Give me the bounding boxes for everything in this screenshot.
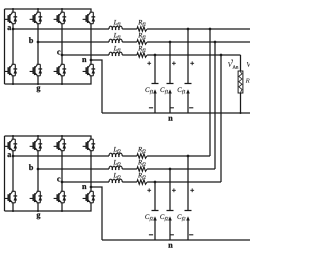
diode Dn2- (anti-parallel): [91, 191, 95, 203]
wire neutral rail n inverter 2: [102, 239, 250, 241]
wire phase b L-R link inverter 1: [122, 41, 137, 43]
label V'B load voltage (cut off): [247, 62, 252, 67]
transistor Sb2+ upper leg b (IGBT): [30, 139, 41, 151]
wire load branch bottom: [240, 93, 242, 113]
transistor Sc2+ upper leg c (IGBT): [54, 139, 65, 151]
wire emitter stub leg 2 inverter 1: [37, 76, 39, 84]
node c inverter 1: [57, 51, 60, 55]
diode Db2- (anti-parallel): [38, 191, 42, 203]
transistor Sn2+ upper leg n (IGBT): [83, 139, 94, 151]
transistor Sc1- lower leg c (IGBT): [54, 64, 65, 76]
wire neutral rail n inverter 1: [102, 112, 250, 114]
wire phase c output inverter 2: [62, 181, 109, 183]
resistor Rf1 phase c: [137, 46, 147, 57]
inductor Lf2 phase a: [109, 147, 122, 157]
wire collector stub leg 3 inverter 1: [61, 9, 63, 12]
resistor Rf2 phase c: [137, 173, 147, 184]
wire emitter stub leg 3 inverter 1: [61, 76, 63, 84]
wire phase c L-R link inverter 1: [122, 54, 137, 56]
diode Dn2+ (anti-parallel): [91, 139, 95, 151]
wire load branch top: [240, 55, 242, 71]
inductor Lf1 phase a: [109, 20, 122, 30]
wire leg n midpoint inverter 1: [90, 24, 92, 65]
wire phase b right run inverter 1: [147, 41, 250, 43]
resistor Rf1 phase b: [137, 33, 147, 44]
wire neutral leg to rail inverter 1: [91, 60, 102, 113]
node b inverter 2: [29, 164, 33, 170]
inductor Lf2 phase c: [109, 173, 122, 183]
node a inverter 2: [7, 153, 11, 157]
transistor Sc1+ upper leg c (IGBT): [54, 12, 65, 24]
transistor Sn1+ upper leg n (IGBT): [83, 12, 94, 24]
diode Da1- (anti-parallel): [13, 64, 17, 76]
wire leg b midpoint inverter 1: [37, 24, 39, 65]
node b inverter 1: [29, 37, 33, 43]
wire collector stub leg 2 inverter 1: [37, 9, 39, 12]
transistor Sa1+ upper leg a (IGBT): [5, 12, 16, 24]
wire phase a right run inverter 2: [147, 155, 210, 157]
wire emitter stub leg 3 inverter 2: [61, 203, 63, 211]
wire DC+ top rail inverter 2: [5, 136, 92, 139]
capacitor Cf1 phase a: [178, 28, 195, 113]
wire phase c right run inverter 1: [147, 54, 240, 56]
node g inverter 2: [37, 213, 41, 219]
diode Dc1+ (anti-parallel): [62, 12, 66, 24]
capacitor Cf2 phase b: [160, 168, 176, 240]
wire phase c output inverter 1: [62, 54, 109, 56]
wire DC- bottom rail inverter 1: [5, 76, 92, 84]
node g inverter 1: [37, 86, 41, 92]
node n leg inverter 2: [82, 185, 86, 189]
transistor Sn1- lower leg n (IGBT): [83, 64, 94, 76]
inductor Lf1 phase c: [109, 46, 122, 56]
wire phase a L-R link inverter 1: [122, 28, 137, 30]
resistor Rf2 phase b: [137, 160, 147, 171]
wire leg c midpoint inverter 2: [61, 151, 63, 192]
inductor Lf2 phase b: [109, 160, 122, 170]
diode Db1- (anti-parallel): [38, 64, 42, 76]
resistor Rf1 phase a: [137, 20, 147, 31]
node c inverter 2: [57, 178, 60, 182]
wire phase b L-R link inverter 2: [122, 168, 137, 170]
wire DC+ top rail inverter 1: [5, 9, 92, 12]
node n leg inverter 1: [82, 58, 86, 62]
diode Db1+ (anti-parallel): [38, 12, 42, 24]
diode Da2+ (anti-parallel): [13, 139, 17, 151]
wire DC link left rail inverter 1: [4, 9, 6, 84]
node a inverter 1: [7, 26, 11, 30]
wire leg c midpoint inverter 1: [61, 24, 63, 65]
diode Dc2+ (anti-parallel): [62, 139, 66, 151]
node n rail inverter 2: [168, 244, 172, 248]
wire paralleling bus phase a: [209, 29, 211, 156]
transistor Sc2- lower leg c (IGBT): [54, 191, 65, 203]
wire emitter stub leg 1 inverter 2: [12, 203, 14, 211]
transistor Sb1- lower leg b (IGBT): [30, 64, 41, 76]
wire emitter stub leg 2 inverter 2: [37, 203, 39, 211]
wire emitter stub leg 1 inverter 1: [12, 76, 14, 84]
wire DC- bottom rail inverter 2: [5, 203, 92, 211]
wire neutral leg to rail inverter 2: [91, 187, 102, 240]
diode Da1+ (anti-parallel): [13, 12, 17, 24]
capacitor Cf2 phase a: [177, 155, 194, 240]
capacitor Cf1 phase c: [145, 54, 158, 113]
diode Dc2- (anti-parallel): [62, 191, 66, 203]
wire paralleling bus phase b: [214, 42, 216, 169]
wire phase b output inverter 2: [38, 168, 109, 170]
capacitor Cf1 phase b: [160, 41, 175, 113]
wire DC link left rail inverter 2: [4, 136, 6, 211]
wire collector stub leg 1 inverter 1: [12, 9, 14, 12]
transistor Sa2- lower leg a (IGBT): [5, 191, 16, 203]
wire phase a output inverter 1: [13, 28, 109, 30]
wire phase a output inverter 2: [13, 155, 109, 157]
diode Dn1- (anti-parallel): [91, 64, 95, 76]
transistor Sb1+ upper leg b (IGBT): [30, 12, 41, 24]
transistor Sa2+ upper leg a (IGBT): [5, 139, 16, 151]
diode Dc1- (anti-parallel): [62, 64, 66, 76]
wire leg a midpoint inverter 2: [12, 151, 14, 192]
wire leg a midpoint inverter 1: [12, 24, 14, 65]
resistor R load: [238, 71, 243, 93]
diode Dn1+ (anti-parallel): [91, 12, 95, 24]
wire phase a right run inverter 1: [147, 28, 250, 30]
wire phase c L-R link inverter 2: [122, 181, 137, 183]
wire collector stub leg 3 inverter 2: [61, 136, 63, 139]
diode Db2+ (anti-parallel): [38, 139, 42, 151]
transistor Sa1- lower leg a (IGBT): [5, 64, 16, 76]
wire phase b output inverter 1: [38, 41, 109, 43]
label V'An load voltage: [228, 62, 233, 67]
wire collector stub leg 2 inverter 2: [37, 136, 39, 139]
resistor Rf2 phase a: [137, 147, 147, 158]
wire paralleling bus phase c: [220, 55, 222, 182]
transistor Sn2- lower leg n (IGBT): [83, 191, 94, 203]
wire phase b right run inverter 2: [147, 168, 215, 170]
inductor Lf1 phase b: [109, 33, 122, 43]
wire phase a L-R link inverter 2: [122, 155, 137, 157]
wire collector stub leg 1 inverter 2: [12, 136, 14, 139]
wire phase c right run inverter 2: [147, 181, 221, 183]
wire leg b midpoint inverter 2: [37, 151, 39, 192]
node n rail inverter 1: [168, 117, 172, 121]
transistor Sb2- lower leg b (IGBT): [30, 191, 41, 203]
wire leg n midpoint inverter 2: [90, 151, 92, 192]
diode Da2- (anti-parallel): [13, 191, 17, 203]
capacitor Cf2 phase c: [145, 181, 158, 240]
